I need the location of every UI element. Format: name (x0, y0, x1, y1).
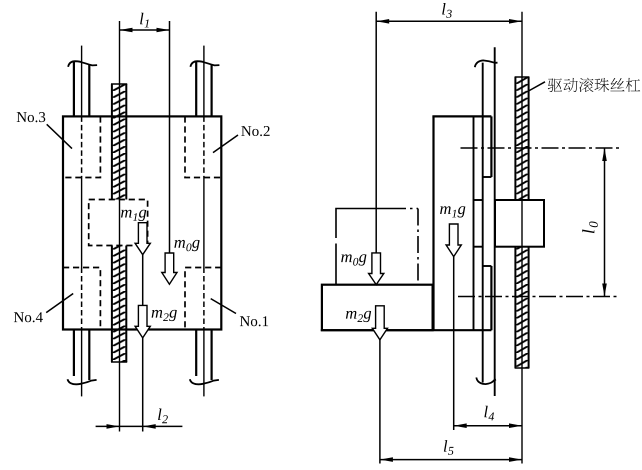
rotation break arc bottom of right rail (190, 379, 219, 384)
rotation break arc top of left rail (68, 61, 97, 67)
screw nut dashed box (left view) (89, 200, 148, 246)
leader line No.4 (46, 294, 73, 313)
label No.3 (17, 112, 46, 122)
screw centerline through nut (521, 200, 523, 247)
force arrow m0g (left view) (162, 253, 177, 284)
ball screw shaft hatched band (left view), upper segment (112, 84, 126, 200)
dimension l5 line (380, 459, 522, 461)
leader line for drive ball screw label (527, 82, 545, 92)
label l4 (484, 406, 494, 421)
connector line m1g to m2g (142, 254, 144, 306)
label m2g (left view) (152, 310, 177, 321)
lower bushing top line (483, 265, 492, 267)
label m0g (right view) (341, 254, 366, 265)
rotation break arc top (right view) (475, 60, 498, 67)
dimension l1 line (120, 29, 170, 31)
guide rail left (left view) outer lines (73, 62, 75, 117)
drive ball screw hatched band lower segment (515, 247, 528, 368)
force arrow m1g (left view) (135, 223, 150, 255)
bearing box No.4 dashed outline (63, 268, 100, 330)
ball nut block on screw (right view) (495, 200, 544, 247)
worktable block (left view) (63, 116, 221, 329)
label m1g (left view) (121, 210, 146, 221)
dimension l3 line (376, 20, 522, 22)
label l2 (158, 409, 168, 424)
guide rail right (left view) outer lines (195, 62, 197, 117)
force line m0g (left view, also l1 right extension) (169, 21, 171, 254)
carriage right edge upper segment (490, 116, 492, 177)
rotation break arc bottom of left rail (68, 379, 97, 384)
label No.1 (240, 316, 268, 326)
force line m0g (right view, l3 left extension) (375, 12, 377, 254)
screw band edge lines (111, 84, 113, 200)
nut clamp line lower (474, 246, 483, 248)
label m1g (right view) (440, 206, 465, 217)
screw centerline (left view, also l1/l2 extension line) (119, 21, 121, 432)
bearing box No.2 dashed outline (185, 116, 221, 177)
base plate m2 block (right view) (322, 285, 433, 331)
lower horizontal centerline (right view) (458, 296, 619, 298)
drive screw centerline (right view, l3/l4/l5 extension) (521, 12, 523, 464)
label m0g (left view) (174, 240, 199, 251)
upper horizontal centerline (right view) (461, 147, 620, 149)
force arrow m2g (left view) (135, 305, 150, 338)
drive ball screw hatched band upper segment (right view) (515, 77, 528, 200)
leader line No.1 (211, 299, 236, 314)
label: drive ball screw (Chinese) (548, 78, 640, 92)
leader line No.3 (47, 124, 72, 148)
upper bushing bottom line (483, 176, 492, 178)
label No.4 (14, 312, 43, 322)
guide rail left (left view) centerline (81, 46, 83, 117)
screw band edges (right view) (514, 77, 516, 200)
guide rail side view line A (482, 63, 484, 383)
dimension l2 line with outside arrows (96, 425, 183, 427)
dimension l0 vertical line (604, 148, 606, 297)
carriage right edge lower segment (490, 266, 492, 330)
force line below m2g to l2 (142, 338, 144, 432)
force arrow m2g (right view) (372, 306, 387, 340)
mass m0 body phantom box (right view) (336, 209, 393, 285)
force arrow m0g (right view) (369, 253, 384, 285)
nut clamp line upper (474, 199, 483, 201)
force arrow m1g (right view) (446, 224, 461, 257)
label l5 (444, 440, 454, 455)
m2g line to l5 (right view) (379, 339, 381, 464)
rotation break arc bottom (right view) (476, 378, 496, 385)
dimension l4 line (454, 425, 522, 427)
bearing box No.3 dashed outline (63, 116, 100, 177)
guide rail side view line B (494, 47, 496, 396)
leader line No.2 (213, 135, 238, 153)
bearing box No.1 dashed outline (185, 268, 221, 330)
label m2g (right view) (346, 311, 371, 322)
m1g line to l4 (right view) (453, 256, 455, 430)
carriage left edge (right view) (432, 116, 434, 330)
carriage inner plate line (473, 116, 475, 330)
ball screw hatched band lower segment (112, 246, 126, 363)
guide rail right (left view) centerline (203, 46, 205, 117)
label l0 (rotated) (582, 221, 598, 233)
carriage top edge (432, 115, 491, 117)
rotation break arc top of right rail (190, 61, 219, 67)
label No.2 (241, 126, 269, 136)
label l1 (140, 13, 149, 28)
carriage/base bottom edge (321, 329, 492, 331)
label l3 (442, 3, 452, 18)
